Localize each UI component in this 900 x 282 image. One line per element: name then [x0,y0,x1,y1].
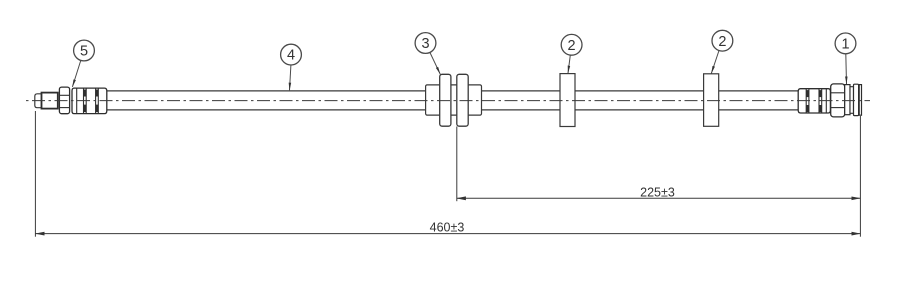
leader 1 [845,54,848,84]
svg-text:5: 5 [80,44,88,60]
leader 2 left [568,55,570,73]
left fitting hex nut [59,87,69,114]
left fitting nose [35,94,42,108]
left fitting crimp ferrule [72,88,107,114]
right fitting end ring [859,85,861,116]
dimension line 460±3 [35,233,860,235]
clip band left (item 2) [560,74,575,127]
left ferrule crimp lines [77,88,99,113]
right fitting end disc [854,84,859,115]
hose (item 4) top and bottom outline [107,91,799,110]
balloon 2 left [561,34,582,55]
right ferrule crimp lines [806,89,826,113]
extension line left of 225 dimension [456,127,458,202]
svg-text:225±3: 225±3 [640,185,675,199]
svg-text:2: 2 [718,34,726,50]
right fitting collar washer [845,85,850,115]
leader 2 right [711,51,719,74]
svg-text:3: 3 [421,36,429,52]
grommet sleeve (item 3 body) [426,85,482,115]
left ferrule crimp windows [84,90,99,113]
extension line left of 460 dimension [34,111,36,237]
leader 5 [72,60,80,87]
balloon 2 right [712,30,733,51]
right fitting hex nut [831,84,845,117]
svg-text:460±3: 460±3 [430,221,465,235]
left hex flats lines [59,95,69,107]
centerline [26,100,870,102]
grommet flange left [440,74,451,126]
svg-text:2: 2 [568,38,576,54]
leader 3 [430,52,440,74]
extension line right shared [859,116,861,237]
svg-text:4: 4 [287,48,295,64]
leader 4 [290,65,291,90]
svg-text:1: 1 [841,37,849,53]
balloon 1 [835,33,856,54]
left fitting thread section [42,93,58,109]
right hex flats lines [831,93,845,108]
right fitting neck [850,87,854,114]
balloon 5 [74,40,95,61]
balloon 3 [415,33,436,54]
clip band right (item 2) [704,74,719,127]
dimension line 225±3 [457,197,861,199]
right ferrule crimp windows [806,90,822,112]
balloon 4 [281,44,302,65]
right fitting crimp ferrule [798,89,830,113]
grommet flange right [457,74,468,126]
